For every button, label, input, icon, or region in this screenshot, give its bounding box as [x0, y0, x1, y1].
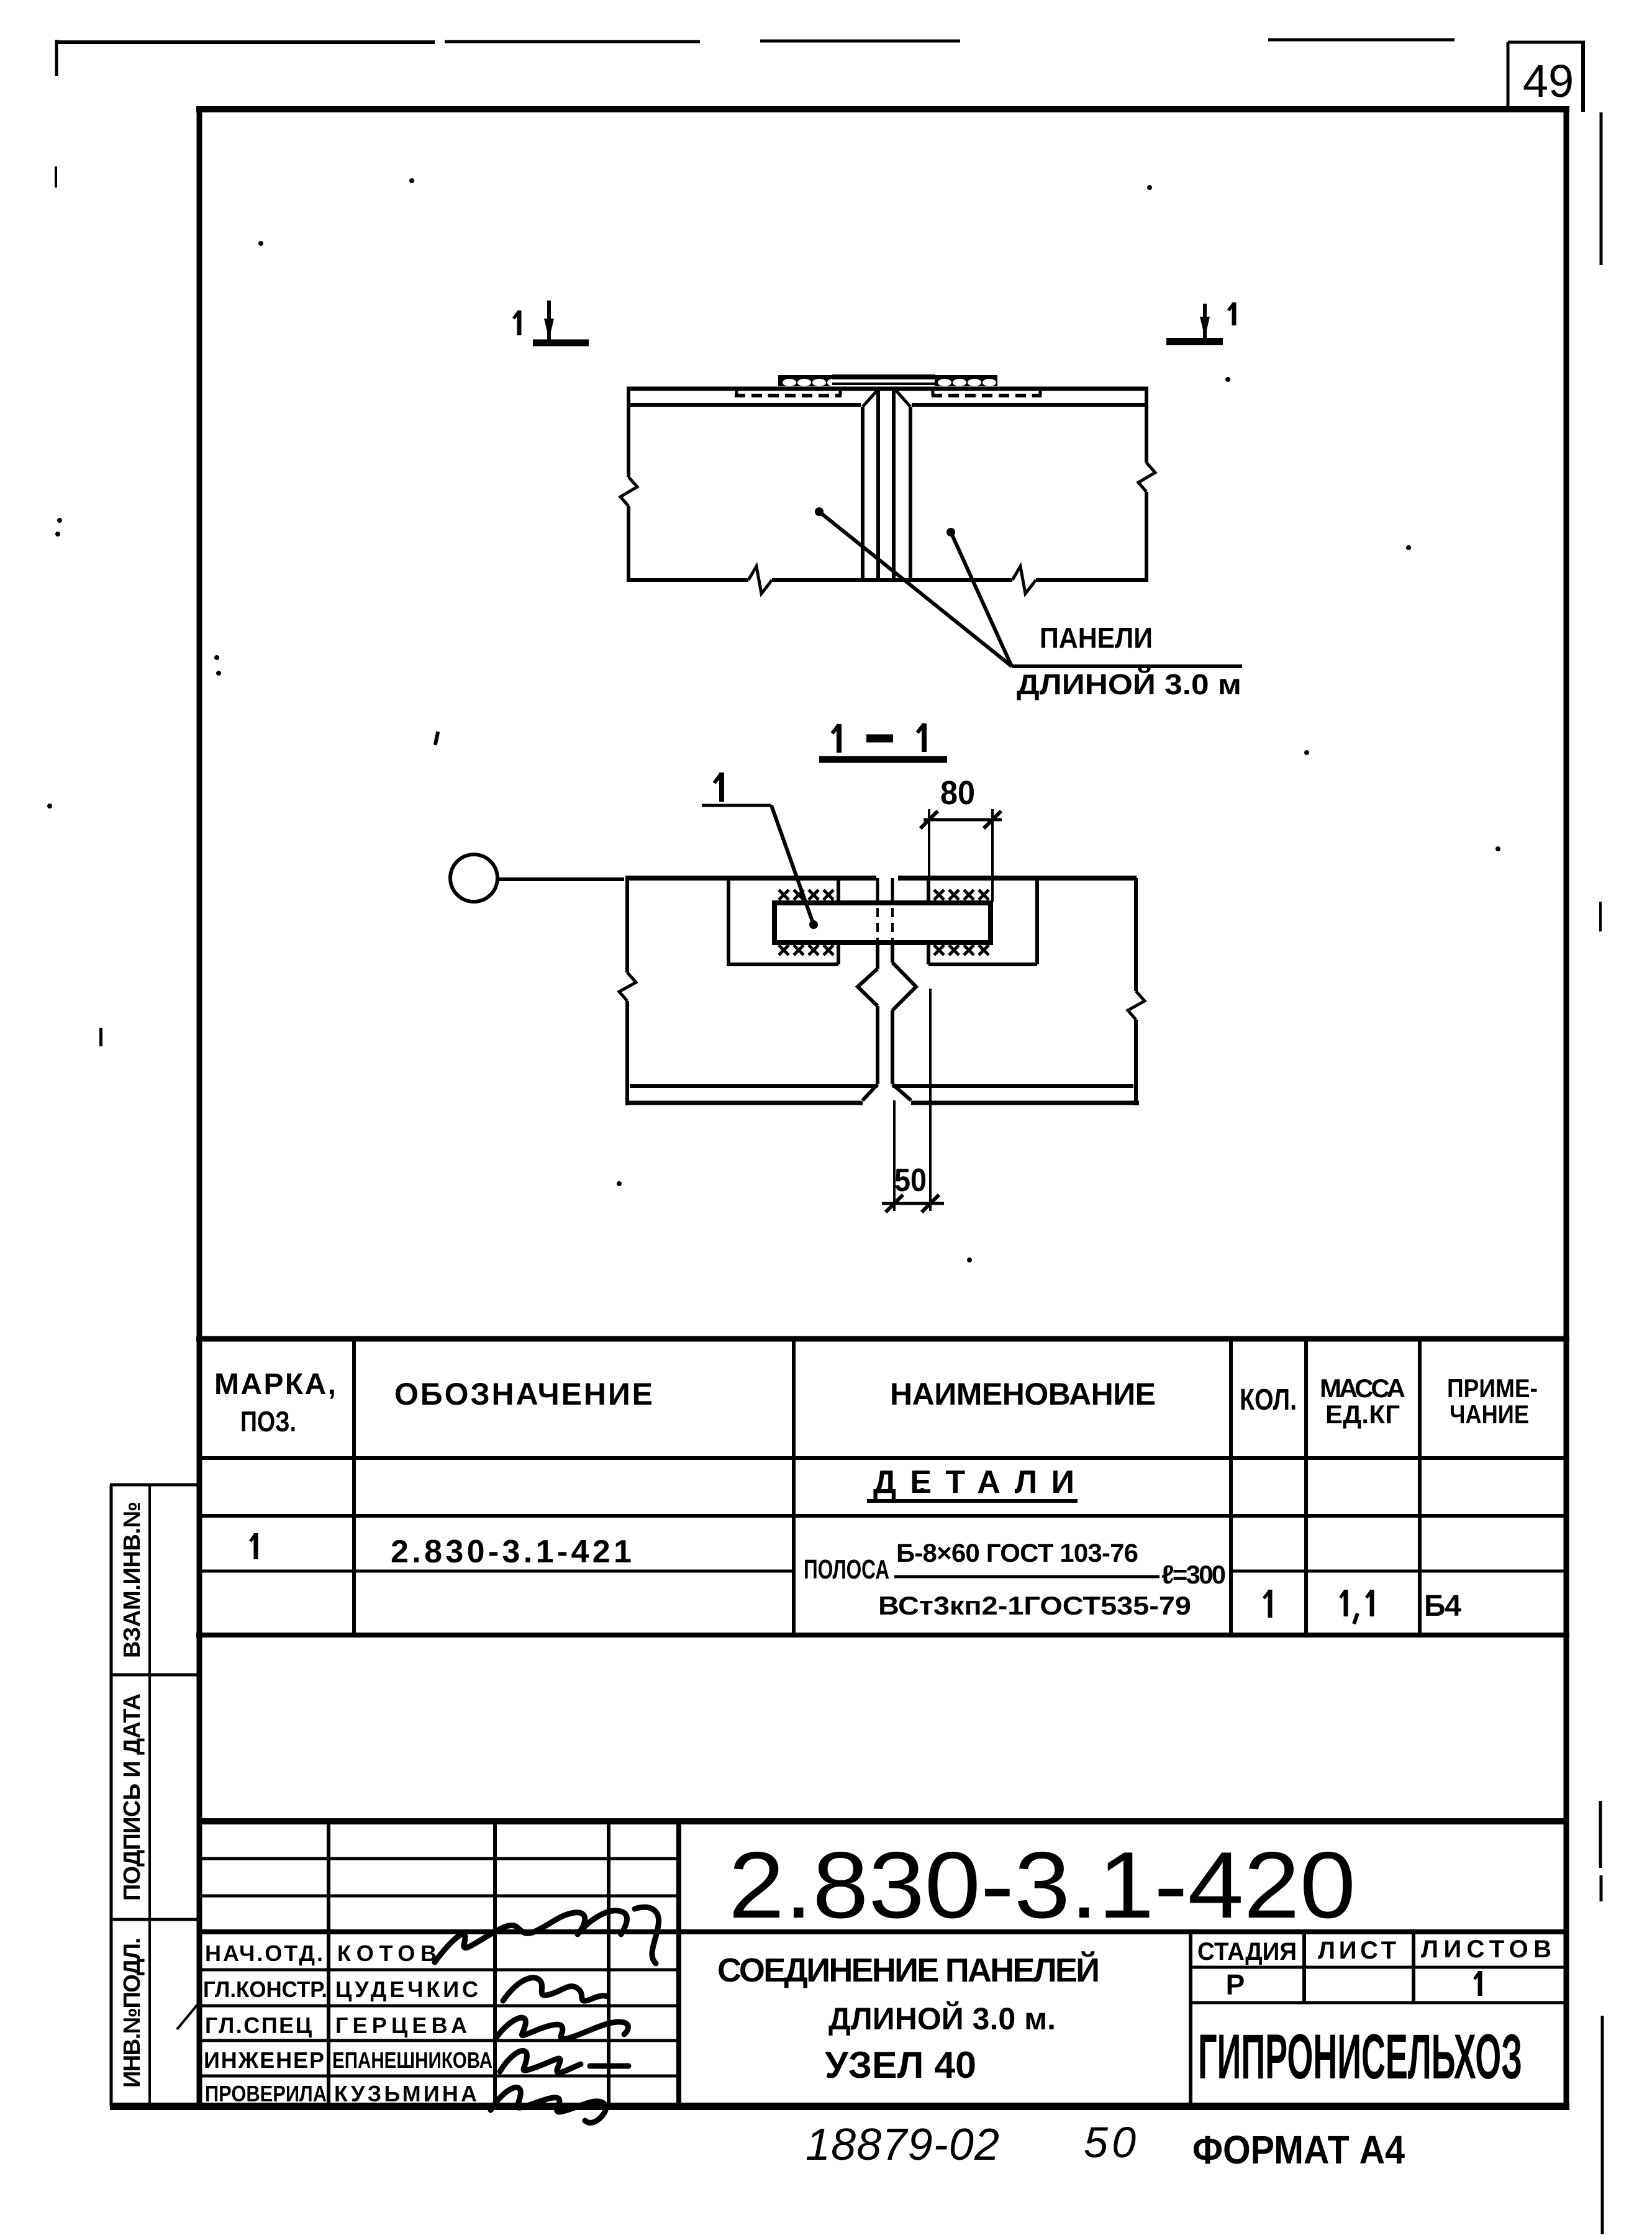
svg-text:ФОРМАТ А4: ФОРМАТ А4	[1192, 2127, 1405, 2172]
svg-text:МАССА: МАССА	[1320, 1374, 1405, 1403]
svg-text:ГЛ.КОНСТР.: ГЛ.КОНСТР.	[203, 1977, 327, 2002]
svg-text:МАРКА,: МАРКА,	[214, 1368, 336, 1401]
svg-text:СОЕДИНЕНИЕ ПАНЕЛЕЙ: СОЕДИНЕНИЕ ПАНЕЛЕЙ	[717, 1951, 1100, 1989]
svg-text:Б-8×60 ГОСТ 103-76: Б-8×60 ГОСТ 103-76	[896, 1538, 1138, 1567]
svg-text:УЗЕЛ 40: УЗЕЛ 40	[825, 2044, 976, 2086]
svg-text:ПРОВЕРИЛА: ПРОВЕРИЛА	[205, 2081, 327, 2106]
svg-text:ПОЛОСА: ПОЛОСА	[804, 1554, 889, 1585]
svg-text:ПАНЕЛИ: ПАНЕЛИ	[1040, 622, 1153, 654]
svg-text:49: 49	[1523, 55, 1574, 107]
svg-text:КОЛ.: КОЛ.	[1240, 1384, 1297, 1416]
svg-text:ПОДПИСЬ И ДАТА: ПОДПИСЬ И ДАТА	[119, 1693, 145, 1901]
svg-text:ЧАНИЕ: ЧАНИЕ	[1450, 1400, 1529, 1429]
svg-text:ОБОЗНАЧЕНИЕ: ОБОЗНАЧЕНИЕ	[394, 1377, 653, 1411]
svg-text:ИНЖЕНЕР: ИНЖЕНЕР	[204, 2047, 324, 2073]
svg-text:Р: Р	[1226, 1968, 1245, 2001]
svg-text:ИНВ.№ПОДЛ.: ИНВ.№ПОДЛ.	[119, 1937, 145, 2088]
svg-text:ДЛИНОЙ 3.0 м.: ДЛИНОЙ 3.0 м.	[828, 2001, 1056, 2036]
svg-text:18879-02: 18879-02	[806, 2120, 999, 2170]
svg-text:НАИМЕНОВАНИЕ: НАИМЕНОВАНИЕ	[890, 1377, 1156, 1411]
svg-text:ВСт3кп2-1ГОСТ535-79: ВСт3кп2-1ГОСТ535-79	[878, 1591, 1191, 1620]
svg-text:ПРИМЕ-: ПРИМЕ-	[1447, 1374, 1538, 1403]
svg-text:Б4: Б4	[1424, 1590, 1461, 1623]
svg-text:ВЗАМ.ИНВ.№: ВЗАМ.ИНВ.№	[119, 1502, 145, 1658]
svg-text:ЕД.КГ: ЕД.КГ	[1325, 1400, 1400, 1429]
svg-text:2.830-3.1-420: 2.830-3.1-420	[728, 1833, 1356, 1938]
svg-text:80: 80	[940, 774, 975, 812]
svg-text:ЕПАНЕШНИКОВА: ЕПАНЕШНИКОВА	[332, 2047, 492, 2073]
svg-text:СТАДИЯ: СТАДИЯ	[1197, 1938, 1297, 1965]
svg-text:ПОЗ.: ПОЗ.	[240, 1405, 296, 1438]
svg-text:2.830-3.1-421: 2.830-3.1-421	[391, 1534, 632, 1570]
svg-text:50: 50	[894, 1162, 927, 1198]
svg-text:ГИПРОНИСЕЛЬХОЗ: ГИПРОНИСЕЛЬХОЗ	[1198, 2021, 1522, 2092]
svg-text:ℓ=300: ℓ=300	[1161, 1560, 1226, 1589]
svg-text:ГЛ.СПЕЦ: ГЛ.СПЕЦ	[205, 2013, 312, 2038]
svg-text:КУЗЬМИНА: КУЗЬМИНА	[334, 2081, 477, 2106]
svg-text:ДЛИНОЙ 3.0 м: ДЛИНОЙ 3.0 м	[1017, 668, 1241, 700]
